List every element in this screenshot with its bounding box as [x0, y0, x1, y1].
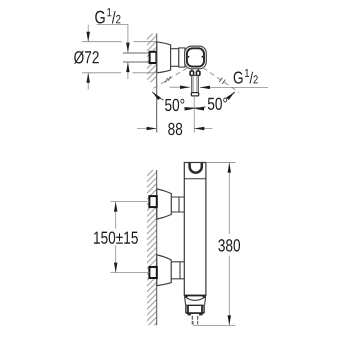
outlet sag curve: [185, 297, 205, 300]
label Ø72: [74, 51, 99, 64]
outlet neck: [192, 68, 198, 71]
outlet thread stubs: [192, 316, 197, 325]
label 50° left: [165, 99, 184, 111]
lower inlet escutcheon: [157, 255, 171, 286]
88 arrows: [147, 127, 157, 131]
handle side nubs: [188, 56, 190, 58]
handle outer: [185, 46, 207, 69]
dimension Ø72 arrow tails: [87, 25, 89, 42]
label 150±15: [94, 231, 138, 243]
swivel dashed line right: [203, 68, 239, 93]
swivel leader arrows: [180, 85, 190, 89]
Ø72 arrows: [86, 32, 90, 42]
dimension 150±15: [111, 202, 150, 273]
wall line (top view): [156, 33, 158, 132]
outlet collar sides: [185, 296, 206, 305]
swivel leader left: [170, 86, 190, 88]
upper inlet escutcheon: [157, 189, 172, 219]
dimension 380: [194, 163, 236, 326]
380 arrows: [228, 163, 232, 173]
G1/2 pipe arrows: [126, 43, 129, 53]
cap joint line: [184, 178, 206, 180]
wall line (front view): [156, 170, 158, 325]
upper inlet pipe: [171, 197, 184, 212]
upper union nut: [149, 196, 156, 207]
swivel leader right / G1/2: [200, 86, 268, 88]
wall hatch (top view): [144, 20, 161, 95]
dimension 88 lines: [137, 128, 157, 130]
150±15 arrows: [114, 202, 118, 212]
outlet centre line: [193, 96, 195, 132]
thread ticks right: [219, 78, 225, 84]
union fitting (top view): [150, 52, 157, 63]
text backgrounds: [164, 97, 186, 112]
thread ticks left: [165, 76, 171, 82]
escutcheon (top view): [157, 42, 171, 73]
outlet bottom edge: [184, 295, 206, 297]
dimension G1/2 top leader: [97, 24, 128, 52]
outlet feet: [188, 314, 191, 316]
handle inner: [187, 48, 204, 66]
label G1/2 right: [234, 69, 258, 84]
valve stem section 2: [179, 48, 185, 67]
label G1/2 top: [95, 8, 120, 23]
outlet shaft: [192, 76, 198, 93]
label 50° right: [208, 98, 227, 110]
outlet collar nuts: [190, 71, 194, 76]
lower union nut: [149, 267, 156, 278]
arc end arrows: [152, 92, 161, 100]
valve stem section 1: [171, 49, 179, 67]
body (front view): [184, 163, 206, 296]
label 380: [218, 239, 240, 251]
wall hatch (front view): [144, 157, 161, 336]
top ring: [190, 163, 202, 173]
arrowheads: [86, 32, 234, 326]
label 88: [168, 123, 182, 135]
outlet nut: [186, 305, 204, 313]
outlet cap: [191, 93, 198, 96]
supply pipe (top view): [123, 53, 151, 62]
angle arc: [152, 92, 235, 108]
lower inlet pipe: [171, 262, 184, 279]
swivel dashed line left: [152, 68, 188, 90]
dimension Ø72 extension lines: [82, 24, 268, 132]
